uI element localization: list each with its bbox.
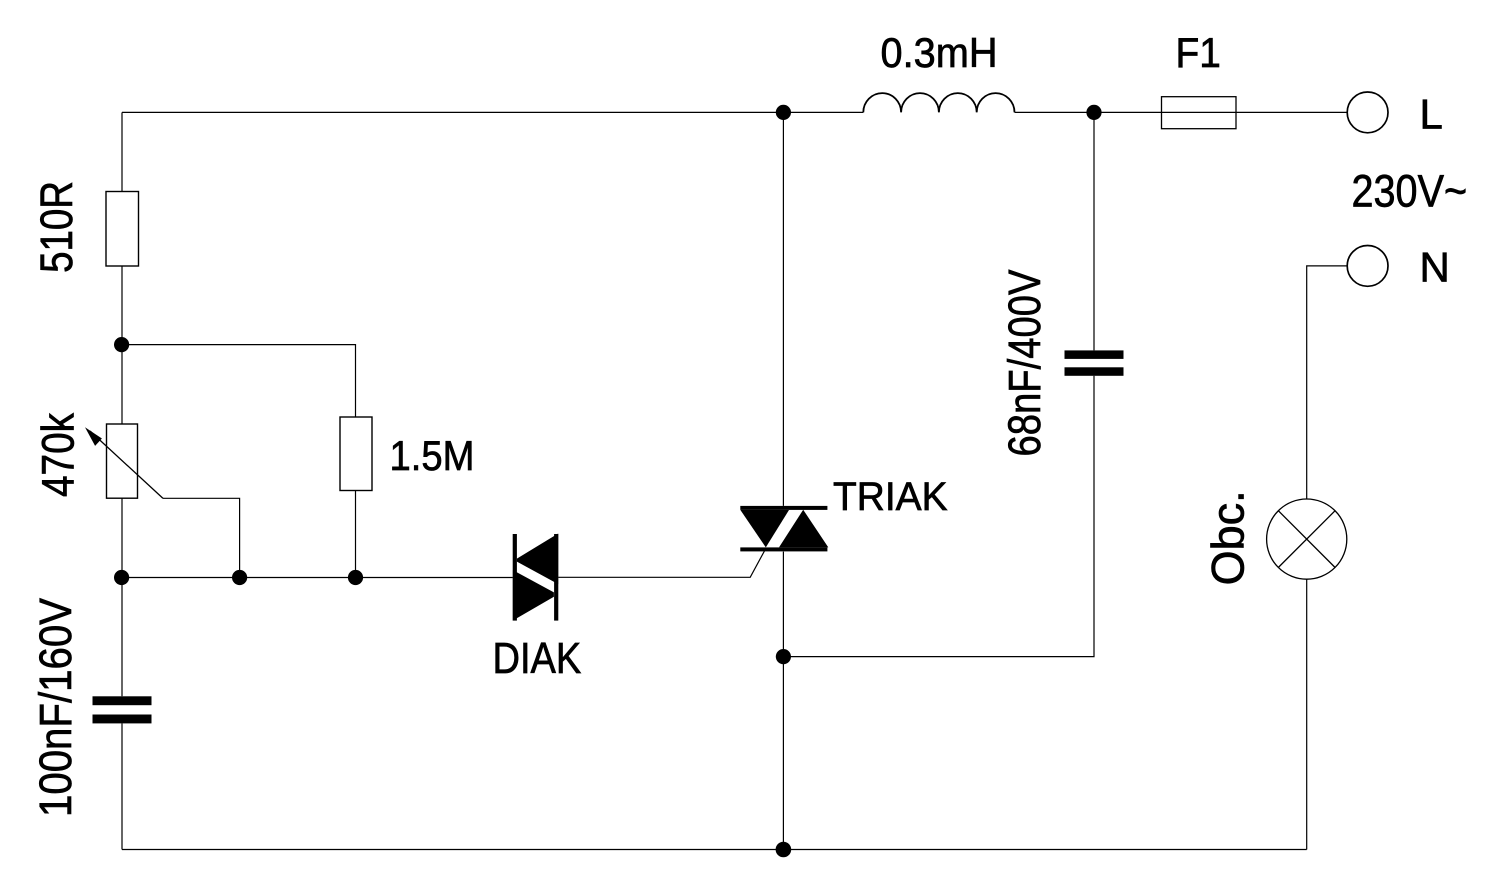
junction dot top left of inductor	[776, 105, 791, 120]
wire 1.5M bottom lead	[355, 491, 357, 578]
junction dot top right of inductor	[1086, 105, 1101, 120]
svg-text:TRIAK: TRIAK	[833, 475, 948, 519]
wire triac node to snubber cap	[783, 376, 1094, 657]
svg-text:L: L	[1420, 90, 1443, 137]
svg-text:1.5M: 1.5M	[390, 432, 475, 479]
resistor 510R	[106, 192, 139, 267]
wire left vertical top (to R 510R)	[121, 112, 123, 191]
junction dot wiper	[232, 570, 247, 585]
wire triac anode vertical top	[782, 112, 784, 506]
junction dot 1.5M	[348, 570, 363, 585]
wire terminal N to lamp	[1307, 266, 1348, 499]
wire capacitor to bottom rail	[121, 723, 123, 849]
diac D1	[513, 534, 559, 621]
svg-text:230V~: 230V~	[1352, 166, 1468, 217]
wire top horizontal L line	[122, 111, 1347, 113]
resistor 1.5M	[340, 417, 372, 491]
wire snubber cap to top rail	[1093, 112, 1095, 350]
wire gate rail y=577	[122, 577, 513, 579]
inductor 0.3mH	[863, 93, 1014, 112]
svg-text:F1: F1	[1176, 29, 1221, 76]
svg-text:68nF/400V: 68nF/400V	[999, 270, 1050, 457]
svg-text:510R: 510R	[31, 181, 82, 273]
wire triac bottom vertical	[782, 552, 784, 850]
wire diac to triac gate	[558, 549, 766, 578]
capacitor 68nF/400V	[1065, 350, 1124, 375]
wire left vertical (510R to potentiometer)	[121, 266, 123, 424]
junction dot bottom rail	[776, 842, 792, 858]
svg-text:470k: 470k	[33, 413, 84, 497]
potentiometer arrow	[90, 431, 163, 498]
svg-text:N: N	[1420, 244, 1450, 291]
node A junction dot	[114, 337, 129, 352]
wire node A to 1.5M branch	[122, 345, 356, 417]
terminal L	[1347, 92, 1388, 133]
wire lamp to bottom rail	[1306, 579, 1308, 849]
junction dot triac bottom node	[776, 649, 791, 664]
potentiometer 470k body	[107, 424, 138, 498]
svg-text:DIAK: DIAK	[493, 634, 582, 683]
wire potentiometer bottom lead	[121, 498, 123, 696]
fuse F1	[1162, 97, 1237, 129]
svg-text:0.3mH: 0.3mH	[881, 29, 998, 76]
wire bottom rail	[122, 849, 1307, 851]
triac Q1	[740, 506, 828, 552]
terminal N	[1347, 246, 1388, 287]
junction dot left bottom	[114, 570, 129, 585]
capacitor 100nF/160V	[93, 696, 152, 723]
wire potentiometer wiper	[163, 498, 240, 577]
lamp Obc.	[1267, 499, 1347, 579]
svg-text:Obc.: Obc.	[1203, 490, 1254, 585]
svg-text:100nF/160V: 100nF/160V	[30, 598, 81, 817]
